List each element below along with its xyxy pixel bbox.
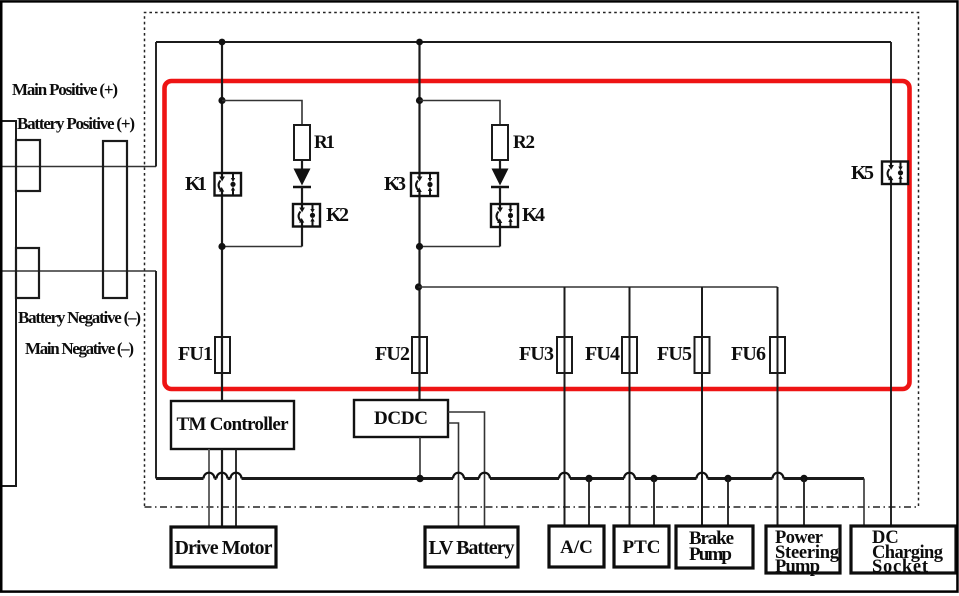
TM controller box [171, 401, 294, 449]
PTC box [614, 526, 669, 567]
wire: brake pump return [727, 479, 729, 527]
junction top bus / K1 [219, 39, 226, 46]
svg-text:K2: K2 [326, 204, 349, 226]
svg-text:R2: R2 [513, 132, 535, 153]
svg-text:K5: K5 [851, 162, 874, 184]
contactor K1 [215, 173, 242, 196]
wire: FU4 drop [629, 287, 631, 526]
svg-text:Socket: Socket [872, 557, 929, 577]
svg-text:TM Controller: TM Controller [177, 414, 290, 435]
DCDC box [354, 400, 448, 437]
dash-dot enclosure bottom [145, 506, 919, 508]
diode D2 [492, 169, 509, 186]
wire: K3 / FU2 vertical branch [418, 42, 420, 400]
fuse FU3 [557, 337, 572, 373]
svg-text:A/C: A/C [560, 537, 593, 558]
bus hop over TM lead 2 [217, 473, 228, 479]
battery cell connector (positive) [16, 140, 40, 191]
wire: negative drop to bottom bus [155, 271, 157, 479]
wire: TM phase lead 2 [221, 449, 223, 527]
wire: precharge branch 1 bottom [222, 246, 302, 248]
wire: PTC return [653, 479, 655, 527]
contactor K3 [411, 173, 438, 196]
junction K3 precharge tap [416, 97, 423, 104]
junction K1 precharge tap [218, 97, 225, 104]
junction steering pump return [800, 475, 807, 482]
bus hop over FU4 drop [624, 473, 635, 479]
wire: DCDC LV output 1 [448, 412, 485, 527]
svg-text:DCDC: DCDC [374, 408, 428, 429]
fuse FU5 [695, 337, 710, 373]
fuse FU2 [412, 337, 427, 373]
battery cell connector (negative) [16, 248, 39, 298]
svg-text:Pump: Pump [689, 544, 732, 565]
svg-text:LV Battery: LV Battery [429, 537, 515, 559]
manual service disconnect block [103, 141, 127, 298]
wire: top positive bus [156, 41, 891, 43]
wire: bus end drop to DC charging socket [863, 479, 865, 527]
red highlight box (HV contactor/fuse zone) [165, 81, 910, 389]
drive motor box [171, 527, 276, 567]
wire: steering pump return [803, 479, 805, 527]
bus hop over LV lead 2 [479, 473, 490, 479]
wire: precharge branch 2 bottom [420, 246, 501, 248]
wire: diode to K2 and down [301, 187, 303, 247]
bus hop over FU3 drop [559, 473, 570, 479]
junction K1 bottom [218, 243, 225, 250]
wire: R2 to diode [499, 160, 501, 170]
svg-text:R1: R1 [314, 132, 335, 153]
svg-text:FU4: FU4 [585, 343, 620, 365]
wire: FU3 drop [564, 287, 566, 526]
dashed PDU enclosure border [145, 13, 919, 507]
svg-text:Pump: Pump [775, 557, 820, 577]
wire: battery negative feed [0, 270, 156, 272]
negative bus bar [156, 477, 864, 480]
junction PTC return [650, 475, 657, 482]
svg-text:Main Negative (–): Main Negative (–) [25, 339, 134, 358]
wire: battery positive feed [0, 166, 156, 168]
svg-text:K1: K1 [185, 173, 207, 195]
svg-text:K4: K4 [522, 204, 545, 226]
resistor R2 [492, 125, 508, 160]
wire: distribution rail to FU3-FU6 [419, 286, 778, 288]
svg-text:Battery Negative (–): Battery Negative (–) [18, 308, 141, 327]
svg-text:Battery Positive (+): Battery Positive (+) [17, 114, 135, 133]
contactor K2 [293, 204, 320, 227]
battery pack outline [0, 121, 16, 486]
wire: DCDC to negative bus [419, 437, 421, 479]
DC charging socket box [851, 526, 956, 573]
wire: R1 to diode [301, 160, 303, 170]
junction brake pump return [724, 475, 731, 482]
junction FU2 distribution tap [415, 283, 422, 290]
wire: positive riser to top bus [155, 42, 157, 167]
resistor R1 [294, 125, 310, 160]
wire: precharge branch 2 top [420, 101, 501, 126]
fuse FU4 [622, 337, 637, 373]
wire: A/C return [588, 479, 590, 527]
wire: TM phase lead 1 [208, 449, 210, 527]
svg-text:FU6: FU6 [731, 343, 766, 365]
bus hop over LV lead 1 [453, 473, 464, 479]
svg-text:FU2: FU2 [375, 343, 410, 365]
svg-text:FU1: FU1 [178, 343, 213, 365]
svg-text:FU3: FU3 [519, 343, 554, 365]
svg-text:PTC: PTC [623, 537, 661, 558]
wire: K5 vertical branch [890, 42, 892, 526]
wire: precharge branch 1 top [222, 101, 302, 126]
svg-text:K3: K3 [384, 173, 406, 195]
wire: DCDC LV output 2 [448, 423, 459, 527]
fuse FU1 [215, 337, 230, 373]
contactor K5 [882, 162, 908, 185]
bus hop over TM lead 3 [231, 473, 242, 479]
wire: diode to K4 and down [499, 187, 501, 247]
wire: TM phase lead 3 [235, 449, 237, 527]
svg-text:FU5: FU5 [657, 343, 692, 365]
fuse FU6 [770, 337, 785, 373]
wire: FU6 drop [777, 287, 779, 526]
bus hop over TM lead 1 [204, 473, 215, 479]
junction K3 bottom [416, 243, 423, 250]
LV battery box [425, 527, 518, 567]
wire: K1 vertical branch [221, 42, 223, 401]
svg-text:Main Positive (+): Main Positive (+) [12, 80, 118, 99]
A/C box [549, 526, 604, 567]
brake pump box [676, 526, 753, 568]
junction top bus / K3 [416, 39, 423, 46]
bus hop over FU5 drop [697, 473, 708, 479]
junction A/C return [585, 475, 592, 482]
wire: FU5 drop [701, 287, 703, 526]
contactor K4 [491, 204, 518, 227]
svg-text:Drive Motor: Drive Motor [175, 537, 273, 559]
diode D1 [294, 169, 311, 186]
power steering pump box [766, 526, 840, 573]
bus hop over FU6 drop [773, 473, 784, 479]
junction DCDC on bus [416, 475, 423, 482]
